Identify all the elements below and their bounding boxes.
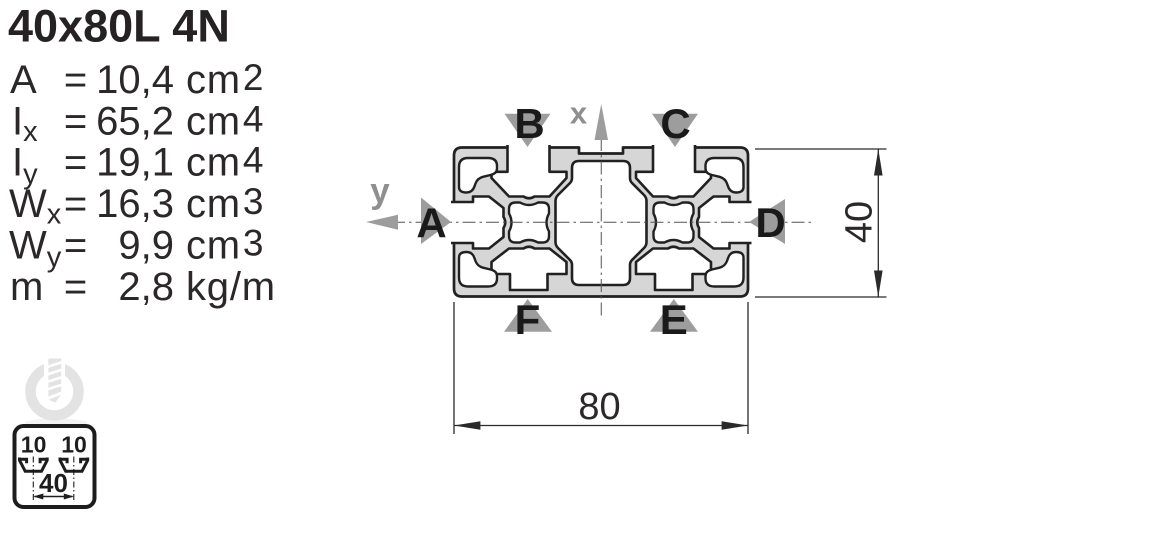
slot marker A	[421, 198, 451, 245]
svg-text:10,4: 10,4	[96, 58, 174, 102]
dimension line	[454, 425, 748, 427]
svg-text:A: A	[10, 58, 37, 102]
dimension 80 (bottom)	[454, 302, 748, 434]
svg-text:kg/m: kg/m	[186, 265, 276, 309]
vertical centerline	[600, 138, 602, 317]
extension line left	[453, 302, 455, 434]
ring gap	[44, 357, 65, 378]
slot F cavity (bottom closed)	[492, 247, 567, 290]
svg-text:x: x	[570, 96, 588, 131]
svg-text:=: =	[64, 141, 87, 185]
extension line top	[755, 148, 887, 150]
dim arrow 40	[33, 494, 74, 500]
svg-text:=: =	[64, 99, 87, 143]
extension line bottom	[755, 296, 887, 298]
dimension line	[877, 149, 879, 297]
svg-text:=: =	[64, 224, 87, 268]
svg-text:m: m	[10, 265, 43, 309]
screw body	[48, 359, 61, 397]
right half cavities (mirror): slots C, D, E + right core + kidneys	[636, 144, 753, 290]
svg-text:D: D	[755, 199, 785, 246]
extension line right	[747, 302, 749, 434]
svg-text:40x80L 4N: 40x80L 4N	[8, 1, 230, 52]
svg-text:cm3: cm3	[186, 181, 264, 226]
slot A cavity (left open)	[450, 197, 505, 249]
svg-text:=: =	[64, 182, 87, 226]
svg-text:A: A	[416, 200, 446, 247]
svg-text:10: 10	[61, 432, 87, 458]
centerline left	[32, 457, 34, 501]
slot marker F	[504, 299, 552, 332]
spec table	[9, 57, 276, 309]
y axis arrow	[366, 215, 398, 230]
slot marker C	[652, 114, 698, 147]
kidney cavity bottom-left corner	[459, 252, 497, 287]
svg-text:F: F	[515, 296, 541, 343]
svg-text:cm3: cm3	[186, 223, 264, 268]
centerline right	[73, 457, 75, 501]
horizontal centerline	[392, 221, 815, 223]
slot B cavity (top open)	[492, 144, 567, 198]
svg-text:cm2: cm2	[186, 57, 264, 102]
svg-text:40: 40	[39, 468, 68, 498]
slot marker E	[650, 299, 698, 332]
svg-text:E: E	[660, 296, 688, 343]
slot marker B	[505, 114, 551, 147]
svg-text:19,1: 19,1	[96, 141, 174, 185]
svg-text:2,8: 2,8	[118, 265, 174, 309]
kidney cavity top-left corner	[459, 158, 497, 193]
svg-text:65,2: 65,2	[96, 99, 174, 143]
slot marker D	[749, 199, 785, 244]
svg-text:9,9: 9,9	[118, 224, 174, 268]
svg-text:=: =	[64, 58, 87, 102]
dimension 40 (right)	[755, 149, 887, 297]
svg-text:C: C	[660, 100, 690, 147]
svg-text:cm4: cm4	[186, 98, 264, 143]
svg-text:=: =	[64, 265, 87, 309]
shadow	[25, 419, 87, 428]
screw threads	[47, 362, 63, 390]
slot pitch legend box	[15, 426, 95, 507]
slot glyph left	[20, 458, 48, 472]
svg-text:10: 10	[21, 432, 47, 458]
dim 40 arrowheads	[874, 149, 883, 176]
dim 80 arrowheads	[454, 421, 480, 430]
svg-text:16,3: 16,3	[96, 182, 174, 226]
svg-text:B: B	[514, 100, 544, 147]
ring	[31, 368, 79, 416]
svg-text:cm4: cm4	[186, 140, 264, 185]
screw-in-circle watermark icon	[25, 357, 87, 428]
slot glyph right	[60, 458, 88, 472]
profile outer body	[454, 148, 748, 297]
core clover hole left	[509, 203, 549, 243]
central cavity	[556, 161, 647, 285]
box frame	[15, 426, 95, 507]
svg-text:80: 80	[578, 386, 620, 428]
x axis arrow	[595, 104, 609, 140]
svg-text:40: 40	[839, 201, 881, 243]
left half cavities	[450, 144, 567, 290]
svg-text:y: y	[370, 171, 390, 210]
screw tip	[49, 395, 62, 403]
